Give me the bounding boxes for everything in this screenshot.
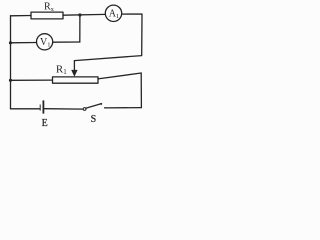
wire: switch to battery: [45, 108, 83, 110]
ammeter A1 circle: [105, 5, 121, 21]
resistor Rx box: [31, 12, 63, 19]
switch S fixed contact tick: [104, 107, 106, 109]
switch S pivot circle: [83, 108, 86, 111]
wire: V row left segment: [11, 42, 37, 44]
wire: left vertical bus: [10, 16, 12, 109]
switch S lever tip blob: [100, 103, 102, 105]
svg-text:E: E: [42, 118, 48, 129]
wire: voltmeter branch vertical: [79, 15, 81, 42]
wire: right vertical lower: [140, 73, 142, 108]
switch S lever: [86, 104, 101, 109]
svg-text:S: S: [91, 114, 97, 125]
battery E short plate: [39, 105, 41, 111]
wire: bottom right segment to switch: [105, 107, 141, 109]
battery E long plate: [42, 100, 44, 113]
voltmeter V1 circle: [37, 34, 53, 50]
node: junction dot left R1 row: [9, 79, 12, 82]
wire: slider vertical drop: [73, 61, 75, 72]
rheostat R1 box: [53, 77, 99, 83]
wire: V row right segment: [53, 41, 80, 43]
wire: Rx to ammeter: [63, 13, 105, 16]
wire: ammeter to top-right corner, down and slider feed: [75, 14, 143, 61]
slider arrow head: [71, 70, 77, 77]
wire: R1 row left lead: [11, 79, 53, 81]
wire: top-left segment to Rx: [11, 15, 32, 17]
node: junction dot left V row: [9, 41, 12, 44]
node: junction dot on top wire (V branch tap): [78, 13, 81, 16]
wire: R1 right lead: [98, 73, 141, 79]
wire: battery to left corner: [11, 108, 40, 110]
